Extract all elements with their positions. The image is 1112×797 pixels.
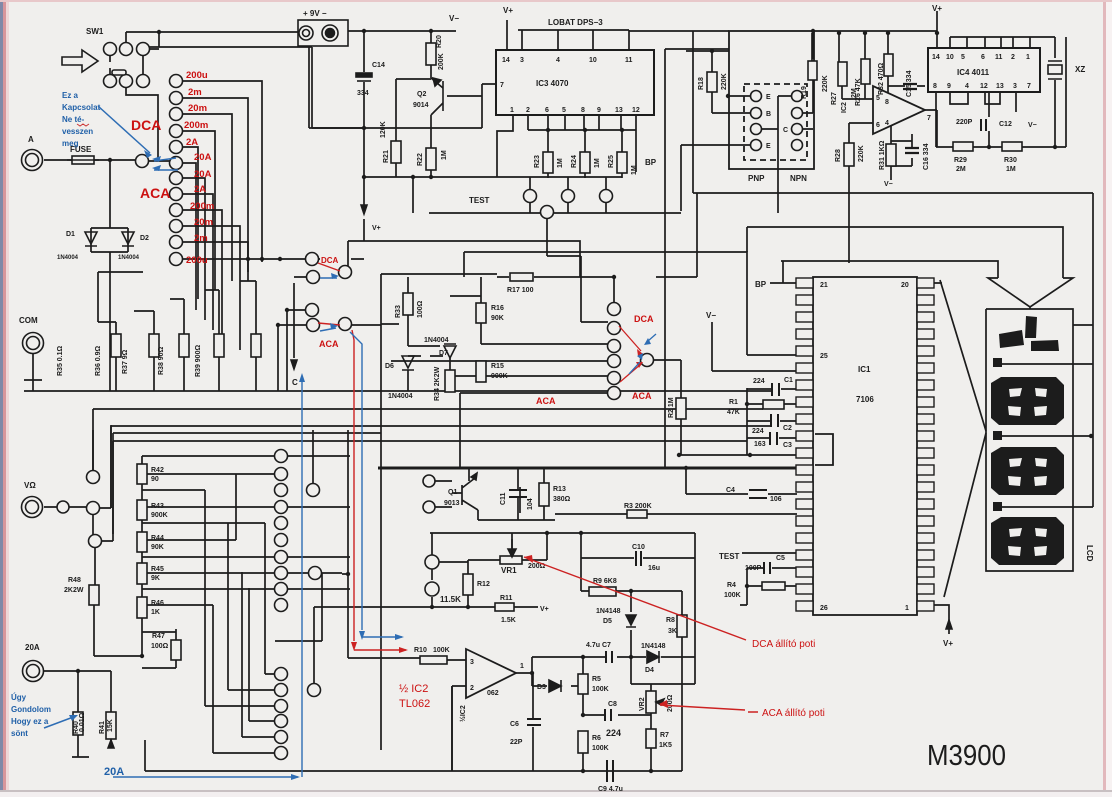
svg-text:C15 334: C15 334	[906, 70, 913, 97]
svg-text:2A: 2A	[194, 184, 206, 195]
svg-text:6: 6	[981, 54, 985, 61]
svg-text:R19: R19	[801, 86, 808, 99]
svg-text:100K: 100K	[724, 592, 741, 599]
svg-text:12: 12	[632, 107, 640, 114]
svg-text:1N4148: 1N4148	[596, 608, 621, 615]
svg-text:220P: 220P	[956, 119, 973, 126]
svg-text:9: 9	[947, 83, 951, 90]
svg-text:D4: D4	[645, 667, 654, 674]
svg-text:R11: R11	[500, 595, 513, 602]
svg-text:R21: R21	[383, 150, 390, 163]
svg-text:R31 1KΩ: R31 1KΩ	[879, 140, 886, 170]
svg-text:7106: 7106	[856, 395, 874, 404]
svg-text:163: 163	[754, 441, 766, 448]
svg-text:6: 6	[545, 107, 549, 114]
svg-text:90: 90	[151, 476, 159, 483]
svg-text:10: 10	[946, 54, 954, 61]
svg-text:12: 12	[980, 83, 988, 90]
svg-text:100K: 100K	[433, 647, 450, 654]
svg-text:062: 062	[487, 690, 499, 697]
svg-text:Ne té-: Ne té-	[62, 115, 85, 124]
svg-text:R46: R46	[151, 600, 164, 607]
svg-text:8: 8	[581, 107, 585, 114]
svg-text:C4: C4	[726, 487, 735, 494]
svg-text:C10: C10	[632, 544, 645, 551]
svg-text:100K: 100K	[592, 745, 609, 752]
svg-text:3: 3	[520, 57, 524, 64]
svg-text:R4: R4	[727, 582, 736, 589]
svg-text:V−: V−	[884, 181, 893, 188]
svg-text:R1: R1	[729, 399, 738, 406]
svg-text:D1: D1	[66, 231, 75, 238]
svg-text:R26 47K: R26 47K	[855, 78, 862, 106]
svg-text:1N4004: 1N4004	[388, 393, 413, 400]
svg-text:B: B	[766, 111, 771, 118]
svg-text:R24: R24	[571, 155, 578, 168]
svg-text:R17 100: R17 100	[507, 287, 534, 294]
svg-text:11.5K: 11.5K	[440, 595, 461, 604]
svg-text:V+: V+	[943, 639, 953, 648]
svg-text:200m: 200m	[184, 120, 208, 131]
svg-text:R29: R29	[954, 157, 967, 164]
svg-text:VΩ: VΩ	[24, 481, 36, 490]
svg-text:C2: C2	[783, 425, 792, 432]
svg-text:A: A	[28, 135, 34, 144]
svg-text:R13: R13	[553, 486, 566, 493]
svg-text:2m: 2m	[188, 87, 202, 98]
svg-text:1M: 1M	[441, 150, 448, 160]
svg-text:R22: R22	[417, 153, 424, 166]
svg-text:½ IC2: ½ IC2	[399, 683, 428, 695]
svg-text:47K: 47K	[727, 409, 740, 416]
svg-text:5: 5	[876, 95, 880, 102]
svg-text:5: 5	[562, 107, 566, 114]
svg-text:1M: 1M	[557, 158, 564, 168]
svg-text:R30: R30	[1004, 157, 1017, 164]
svg-text:R20: R20	[436, 35, 443, 48]
svg-text:V+: V+	[540, 606, 549, 613]
svg-text:TEST: TEST	[469, 196, 490, 205]
svg-text:6: 6	[876, 122, 880, 129]
svg-text:V−: V−	[449, 14, 459, 23]
svg-text:R25: R25	[608, 155, 615, 168]
svg-text:220K: 220K	[858, 145, 865, 162]
svg-text:C8: C8	[608, 701, 617, 708]
svg-text:R18: R18	[698, 77, 705, 90]
svg-text:COM: COM	[19, 316, 38, 325]
svg-text:NPN: NPN	[790, 174, 807, 183]
svg-text:0.01Ω: 0.01Ω	[79, 712, 86, 732]
svg-text:13: 13	[996, 83, 1004, 90]
svg-text:7: 7	[927, 115, 931, 122]
svg-text:DCA: DCA	[634, 314, 654, 324]
svg-text:V+: V+	[503, 6, 513, 15]
svg-text:100K: 100K	[592, 686, 609, 693]
svg-text:DCA állító poti: DCA állító poti	[752, 639, 815, 650]
svg-text:R8: R8	[666, 617, 675, 624]
svg-text:C: C	[783, 127, 788, 134]
svg-text:200m: 200m	[190, 201, 214, 212]
svg-text:R35 0.1Ω: R35 0.1Ω	[57, 345, 64, 376]
svg-text:ACA állító poti: ACA állító poti	[762, 708, 825, 719]
svg-text:14: 14	[502, 57, 510, 64]
svg-text:C16 334: C16 334	[923, 143, 930, 170]
svg-text:104: 104	[527, 498, 534, 510]
svg-text:XZ: XZ	[1075, 65, 1085, 74]
svg-text:26: 26	[820, 605, 828, 612]
svg-text:3: 3	[1013, 83, 1017, 90]
svg-text:V+: V+	[372, 225, 381, 232]
svg-text:DCA: DCA	[131, 117, 161, 133]
svg-text:D6: D6	[385, 363, 394, 370]
svg-text:C9 4.7u: C9 4.7u	[598, 786, 623, 793]
svg-text:R33: R33	[395, 305, 402, 318]
svg-text:R34 2K2W: R34 2K2W	[434, 366, 441, 401]
svg-text:2M: 2M	[956, 166, 966, 173]
svg-text:2m: 2m	[194, 233, 208, 244]
svg-text:13: 13	[615, 107, 623, 114]
svg-text:1N4004: 1N4004	[118, 255, 140, 261]
svg-text:R48: R48	[68, 577, 81, 584]
svg-text:20A: 20A	[104, 766, 124, 778]
svg-text:4.7u C7: 4.7u C7	[586, 642, 611, 649]
svg-text:+ 9V −: + 9V −	[303, 9, 327, 18]
svg-text:R32 470Ω: R32 470Ω	[878, 63, 885, 95]
svg-text:224: 224	[752, 428, 764, 435]
svg-text:4: 4	[556, 57, 560, 64]
svg-text:R42: R42	[151, 467, 164, 474]
svg-text:224: 224	[606, 728, 621, 738]
svg-text:ACA: ACA	[536, 396, 556, 406]
svg-text:1M: 1M	[1006, 166, 1016, 173]
svg-text:1M: 1M	[594, 158, 601, 168]
svg-text:D2: D2	[140, 235, 149, 242]
svg-text:9013: 9013	[444, 500, 460, 507]
svg-text:4: 4	[885, 120, 889, 127]
svg-text:1N4004: 1N4004	[424, 337, 449, 344]
svg-text:2K2W: 2K2W	[64, 587, 84, 594]
svg-text:R7: R7	[660, 732, 669, 739]
svg-text:21: 21	[820, 282, 828, 289]
svg-text:1N4148: 1N4148	[641, 643, 666, 650]
svg-text:1N4004: 1N4004	[57, 255, 79, 261]
svg-text:PNP: PNP	[748, 174, 765, 183]
svg-text:90K: 90K	[491, 315, 504, 322]
svg-text:220K: 220K	[822, 75, 829, 92]
svg-text:TL062: TL062	[399, 698, 430, 710]
svg-text:90K: 90K	[151, 544, 164, 551]
svg-text:Q2: Q2	[417, 91, 426, 98]
svg-text:9K: 9K	[151, 575, 160, 582]
svg-text:25: 25	[820, 353, 828, 360]
svg-text:11: 11	[995, 54, 1003, 61]
svg-text:8: 8	[885, 99, 889, 106]
svg-text:R44: R44	[151, 535, 164, 542]
svg-text:C1: C1	[784, 377, 793, 384]
svg-text:C14: C14	[372, 62, 385, 69]
svg-text:LCD: LCD	[1085, 545, 1094, 562]
svg-text:IC3 4070: IC3 4070	[536, 79, 569, 88]
svg-text:16u: 16u	[648, 565, 660, 572]
svg-text:Ez a: Ez a	[62, 91, 79, 100]
svg-text:D3: D3	[537, 684, 546, 691]
svg-text:106: 106	[770, 496, 782, 503]
svg-text:V−: V−	[706, 311, 716, 320]
svg-text:15K: 15K	[107, 719, 114, 732]
svg-text:200Ω: 200Ω	[667, 694, 674, 712]
svg-text:R12: R12	[477, 581, 490, 588]
svg-text:20A: 20A	[25, 643, 40, 652]
svg-text:22P: 22P	[510, 739, 523, 746]
svg-text:Q1: Q1	[448, 489, 457, 496]
svg-text:R6: R6	[592, 735, 601, 742]
svg-text:200u: 200u	[186, 255, 208, 266]
svg-text:BP: BP	[645, 158, 657, 167]
svg-text:VR2: VR2	[639, 697, 646, 711]
svg-text:200K: 200K	[438, 53, 445, 70]
svg-text:sönt: sönt	[11, 729, 28, 738]
svg-text:2: 2	[470, 685, 474, 692]
svg-text:334: 334	[357, 90, 369, 97]
svg-text:R37 9Ω: R37 9Ω	[122, 349, 129, 374]
svg-text:R16: R16	[491, 305, 504, 312]
svg-text:V+: V+	[932, 4, 942, 13]
svg-text:IC2: IC2	[841, 102, 848, 113]
svg-text:2: 2	[526, 107, 530, 114]
svg-text:1: 1	[520, 663, 524, 670]
svg-text:R38 90Ω: R38 90Ω	[158, 346, 165, 375]
svg-text:9: 9	[597, 107, 601, 114]
svg-text:100Ω: 100Ω	[151, 643, 169, 650]
svg-text:20A: 20A	[194, 169, 212, 180]
svg-text:R5: R5	[592, 676, 601, 683]
svg-text:Kapcsolat: Kapcsolat	[62, 103, 101, 112]
svg-text:8: 8	[933, 83, 937, 90]
svg-text:900K: 900K	[151, 512, 168, 519]
svg-text:20m: 20m	[188, 103, 207, 114]
svg-text:10: 10	[589, 57, 597, 64]
svg-text:200u: 200u	[186, 70, 208, 81]
svg-text:R41: R41	[99, 721, 106, 734]
svg-text:DCA: DCA	[321, 256, 339, 265]
svg-text:9014: 9014	[413, 102, 429, 109]
svg-text:E: E	[766, 94, 771, 101]
svg-text:E: E	[766, 143, 771, 150]
svg-text:14: 14	[932, 54, 940, 61]
svg-text:Hogy ez a: Hogy ez a	[11, 717, 49, 726]
svg-text:1: 1	[1026, 54, 1030, 61]
svg-text:2A: 2A	[186, 137, 198, 148]
svg-text:C: C	[292, 378, 298, 387]
svg-text:R2 1M: R2 1M	[668, 397, 675, 418]
svg-text:IC1: IC1	[858, 365, 871, 374]
svg-text:4: 4	[965, 83, 969, 90]
svg-text:meg: meg	[62, 139, 79, 148]
svg-text:C12: C12	[999, 121, 1012, 128]
svg-text:vesszen: vesszen	[62, 127, 93, 136]
svg-text:7: 7	[500, 82, 504, 89]
svg-text:7: 7	[1027, 83, 1031, 90]
svg-text:C11: C11	[500, 492, 507, 505]
svg-text:224: 224	[753, 378, 765, 385]
svg-text:VR1: VR1	[501, 566, 517, 575]
svg-text:V−: V−	[1028, 122, 1037, 129]
svg-text:1K5: 1K5	[659, 742, 672, 749]
svg-text:R36 0.9Ω: R36 0.9Ω	[95, 345, 102, 376]
svg-text:1.5K: 1.5K	[501, 617, 516, 624]
svg-text:120K: 120K	[380, 121, 387, 138]
svg-text:R39 900Ω: R39 900Ω	[195, 345, 202, 377]
svg-text:R47: R47	[152, 633, 165, 640]
svg-text:D5: D5	[603, 618, 612, 625]
svg-text:ACA: ACA	[140, 185, 170, 201]
svg-text:Úgy: Úgy	[11, 693, 27, 702]
svg-text:2: 2	[1011, 54, 1015, 61]
svg-text:1K: 1K	[151, 609, 160, 616]
svg-text:R28: R28	[835, 149, 842, 162]
svg-text:5: 5	[961, 54, 965, 61]
svg-text:R3 200K: R3 200K	[624, 503, 652, 510]
svg-text:3: 3	[470, 659, 474, 666]
svg-text:1: 1	[510, 107, 514, 114]
svg-text:D7: D7	[439, 350, 448, 357]
svg-text:R10: R10	[414, 647, 427, 654]
svg-text:3K: 3K	[668, 628, 677, 635]
svg-text:Gondolom: Gondolom	[11, 705, 51, 714]
svg-text:R43: R43	[151, 503, 164, 510]
svg-text:20: 20	[901, 282, 909, 289]
svg-text:1: 1	[905, 605, 909, 612]
svg-text:20A: 20A	[194, 152, 212, 163]
svg-text:1M: 1M	[631, 165, 638, 175]
svg-text:C6: C6	[510, 721, 519, 728]
svg-text:C3: C3	[783, 442, 792, 449]
svg-text:R27: R27	[831, 92, 838, 105]
svg-text:100Ω: 100Ω	[417, 300, 424, 318]
svg-text:LOBAT DPS−3: LOBAT DPS−3	[548, 18, 603, 27]
svg-text:R40: R40	[73, 721, 80, 734]
svg-text:100P: 100P	[745, 565, 762, 572]
svg-text:11: 11	[625, 57, 633, 64]
svg-text:IC4 4011: IC4 4011	[957, 68, 990, 77]
svg-text:BP: BP	[755, 280, 767, 289]
svg-text:900K: 900K	[491, 373, 508, 380]
svg-text:ACA: ACA	[632, 391, 652, 401]
svg-text:220K: 220K	[721, 73, 728, 90]
svg-text:SW1: SW1	[86, 27, 104, 36]
svg-text:20m: 20m	[194, 217, 213, 228]
svg-text:380Ω: 380Ω	[553, 496, 571, 503]
svg-text:M3900: M3900	[927, 740, 1006, 772]
svg-text:R23: R23	[534, 155, 541, 168]
svg-text:½IC2: ½IC2	[459, 705, 467, 722]
svg-text:TEST: TEST	[719, 552, 740, 561]
svg-text:R45: R45	[151, 566, 164, 573]
svg-text:R15: R15	[491, 363, 504, 370]
svg-text:ACA: ACA	[319, 339, 339, 349]
svg-text:C5: C5	[776, 555, 785, 562]
